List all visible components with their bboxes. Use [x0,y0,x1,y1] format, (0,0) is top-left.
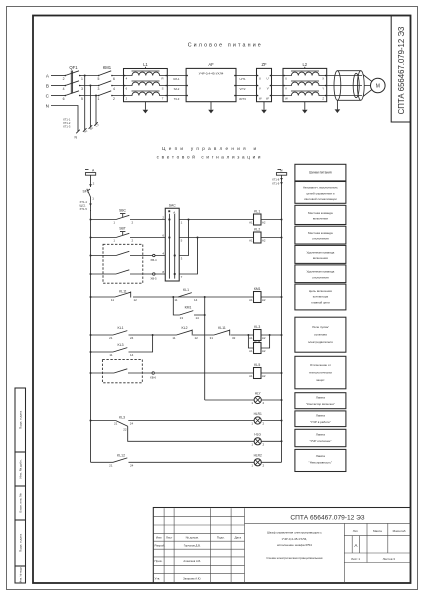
svg-text:Y: Y [322,86,324,90]
contact KL2 NC [172,326,198,340]
svg-text:14: 14 [130,353,134,357]
cable screen [334,71,364,101]
svg-text:А2: А2 [262,336,266,340]
svg-text:12: 12 [134,298,138,302]
technology protection box [102,359,142,382]
svg-text:Удаленная команда: Удаленная команда [307,250,335,254]
svg-text:KL11: KL11 [119,290,127,294]
contact KL3 changeover [114,415,134,431]
wire L2 to motor rows [326,76,362,96]
contact KL11 NC 31-32 [210,326,236,340]
svg-text:"Контактор включен": "Контактор включен" [306,402,335,406]
svg-text:ХТ1-1: ХТ1-1 [63,118,71,122]
svg-text:исполнение шкафа IP54: исполнение шкафа IP54 [277,543,312,547]
svg-text:Подп.: Подп. [217,536,225,540]
svg-text:А1: А1 [249,221,253,225]
relay coil KL1 [249,210,266,225]
svg-text:контактора: контактора [313,295,329,299]
ground cable screen [335,100,341,113]
contact KL1 seal [174,288,197,302]
svg-text:6: 6 [113,77,115,81]
breaker QF1 [63,65,83,101]
svg-text:Шкаф управления электроприводо: Шкаф управления электроприводом с [267,531,322,535]
svg-text:А1: А1 [249,349,253,353]
wire SAC 5 to KL2 [179,237,253,239]
svg-text:останова: останова [314,333,327,337]
svg-text:А1: А1 [249,298,253,302]
svg-text:QF1: QF1 [69,65,78,70]
svg-text:ХТ1-2: ХТ1-2 [63,121,71,125]
svg-text:цепей управления и: цепей управления и [306,191,334,195]
wire QF1 to KM1 row A [80,75,99,77]
node B [46,84,49,89]
svg-text:ХВ-6: ХВ-6 [150,375,157,379]
svg-text:Цепь включения: Цепь включения [309,289,332,293]
contact XB-5 [116,270,157,281]
wire rung 10 [91,420,282,422]
wire rung 11 [128,426,282,441]
svg-text:S/L2: S/L2 [174,87,180,91]
wire QF1 to KM1 row B [80,85,99,87]
node V/T2 [240,87,246,91]
contact XB-4 [116,251,157,261]
node branch left [172,296,174,298]
svg-text:V: V [259,86,261,90]
svg-text:5: 5 [98,77,100,81]
svg-text:М: М [376,84,380,90]
svg-text:Отключение от: Отключение от [310,363,332,367]
svg-text:А2: А2 [262,221,266,225]
ground AF [208,102,214,114]
svg-text:KL12: KL12 [117,453,125,457]
svg-text:12: 12 [195,336,199,340]
wire KL1 to N [261,219,282,221]
svg-text:KL3: KL3 [117,343,123,347]
node N tap [272,169,287,186]
wire phase C [51,95,65,97]
svg-text:А1: А1 [249,374,253,378]
wire rung 12 [91,461,282,463]
svg-text:N: N [46,104,49,109]
svg-text:Горчуков Д.В.: Горчуков Д.В. [184,543,201,547]
contactor KM1 [98,65,115,101]
svg-text:24: 24 [130,463,134,467]
motor M1 [371,78,386,93]
ground L1 [143,102,149,114]
contact KL12 [109,453,134,467]
pushbutton SBC [113,208,133,224]
selector switch SAC [162,203,182,281]
svg-text:Шинки питания: Шинки питания [309,171,332,175]
svg-text:А: А [173,210,175,214]
wire rung 6 [91,334,254,336]
svg-text:T/L3: T/L3 [174,97,180,101]
node U/T1 [239,77,246,81]
svg-text:11: 11 [174,298,177,302]
svg-text:КМ1: КМ1 [185,306,192,310]
svg-text:Местная команда: Местная команда [308,211,333,215]
svg-text:V/T2: V/T2 [240,87,246,91]
wire KL3 coil to N [261,334,282,336]
contact KL3 seal [109,343,133,357]
svg-text:световой сигнализации: световой сигнализации [157,153,263,159]
svg-text:X: X [322,76,324,80]
junction dots N bus [281,219,283,443]
svg-text:KL3: KL3 [254,325,260,329]
svg-text:Силовое питание: Силовое питание [188,43,263,49]
svg-text:электродвигателя: электродвигателя [308,340,333,344]
svg-text:Автоматич. выключатель: Автоматич. выключатель [303,186,338,190]
svg-text:Листов 3: Листов 3 [383,557,396,561]
svg-text:Лист 1: Лист 1 [351,557,360,561]
svg-text:5: 5 [81,97,83,101]
svg-text:Лист: Лист [166,536,173,540]
svg-text:ХТ1-5: ХТ1-5 [80,207,88,211]
svg-text:УЧР-0,4-45-УХЛ4: УЧР-0,4-45-УХЛ4 [199,71,224,75]
wire tag N [75,130,80,140]
wire left bus [90,210,92,462]
svg-text:R/L1: R/L1 [174,77,180,81]
node tap C [95,95,97,97]
wire SAC 3 link [179,220,188,256]
svg-text:24: 24 [130,336,134,340]
node tap A [84,75,86,77]
svg-text:U/T1: U/T1 [239,77,246,81]
svg-text:включения: включения [313,217,328,221]
svg-text:W': W' [266,96,270,100]
node A tap [85,169,96,187]
svg-text:11: 11 [109,353,112,357]
svg-text:Дата: Дата [234,536,241,540]
svg-text:Пров.: Пров. [155,559,163,563]
wire L1 to AF rows [166,76,187,96]
ground ZF [261,102,267,114]
svg-text:ХТ1-4: ХТ1-4 [80,200,88,204]
wire tag A1 [83,128,89,134]
node S/L2 [174,87,180,91]
svg-text:Лит.: Лит. [353,529,359,533]
relay coil KL3 [249,325,266,340]
svg-text:KL11: KL11 [218,326,226,330]
node W/T3 [239,97,246,101]
svg-text:А2: А2 [262,298,266,302]
svg-text:KL5: KL5 [254,363,260,367]
svg-text:21: 21 [109,336,113,340]
frequency converter AF [186,62,236,102]
wire phase A [51,75,65,77]
svg-text:21: 21 [109,463,113,467]
svg-text:SAC: SAC [169,203,177,207]
svg-text:3: 3 [81,87,83,91]
svg-text:14: 14 [194,298,198,302]
wire KM1 aux branch [173,297,204,315]
svg-text:KL2: KL2 [181,326,187,330]
wire ZF to L2 rows [270,76,284,96]
node N [46,104,49,109]
svg-text:T: T [162,97,164,101]
node seal junction [152,334,154,336]
svg-text:W: W [285,96,288,100]
svg-text:V: V [285,86,287,90]
svg-text:"Неисправность": "Неисправность" [309,461,332,465]
svg-text:Инв. № подл.: Инв. № подл. [19,566,23,582]
svg-text:Схема электрическая принципиал: Схема электрическая принципиальная [266,556,322,560]
svg-text:КМ1: КМ1 [254,287,261,291]
wire KM1 to L1 rows [112,76,125,96]
svg-text:главной цепи: главной цепи [311,300,330,304]
svg-text:Изм: Изм [156,536,162,540]
svg-text:№ докум.: № докум. [186,536,199,540]
lamp HLR1 [251,412,264,426]
svg-text:Удаленная команда: Удаленная команда [307,270,335,274]
svg-text:HLG: HLG [254,433,261,437]
svg-text:KL4: KL4 [254,340,260,344]
lamp HLY [251,391,264,405]
filter ZF [257,62,272,102]
svg-text:W/T3: W/T3 [239,97,246,101]
wire tag C1 [94,122,100,128]
node KL4 left [247,334,249,336]
remote command box [103,244,143,283]
svg-text:Алексеев А.Б.: Алексеев А.Б. [183,559,201,563]
svg-text:L2: L2 [302,62,307,67]
svg-text:Реле пуска/: Реле пуска/ [312,325,328,329]
contact KL1 start [109,326,134,340]
svg-text:Загарова А.Ю.: Загарова А.Ю. [183,577,201,581]
wire KL2 to N [261,237,282,239]
svg-text:А1: А1 [249,239,253,243]
svg-text:2: 2 [63,77,65,81]
terminal labels XT1 [63,118,71,129]
svg-text:отключения: отключения [312,237,329,241]
svg-text:отключения: отключения [312,275,329,279]
svg-text:ЩС1: ЩС1 [80,204,86,208]
svg-text:KL1: KL1 [254,210,260,214]
svg-text:УЧР-0,4-45-УХЛ4,: УЧР-0,4-45-УХЛ4, [282,537,308,541]
svg-text:световой сигнализации: световой сигнализации [304,197,337,201]
svg-text:А2: А2 [262,239,266,243]
wire rung 4 [91,273,166,275]
breaker SF1 [82,189,94,211]
node A [46,74,50,79]
svg-text:СПТА 656467.079-12 Э3: СПТА 656467.079-12 Э3 [397,27,406,115]
relay coil KM1 [249,287,266,302]
reactor L1 [124,62,168,102]
svg-text:SBC: SBC [119,208,127,212]
svg-text:Цепи управления и: Цепи управления и [162,146,259,151]
relay coil KL5 [249,363,266,378]
wire rung 3 [91,255,166,257]
relay coil KL2 [249,228,266,243]
svg-text:AF: AF [208,62,214,67]
wire rung 5 [91,296,254,298]
svg-text:А2: А2 [262,349,266,353]
svg-text:Лампа: Лампа [316,414,325,418]
wire KM1 coil to N [261,296,282,298]
contact XB-6 [114,369,157,380]
svg-text:6: 6 [63,97,65,101]
node T/L3 [174,97,180,101]
svg-text:Местная команда: Местная команда [308,231,333,235]
svg-text:11: 11 [172,336,175,340]
node branch right [204,296,206,298]
node lamp feed [204,314,206,316]
reactor L2 [283,62,327,102]
svg-text:защит: защит [316,378,325,382]
lamp HLG [251,433,264,447]
svg-text:U: U [259,76,261,80]
svg-text:1: 1 [81,77,83,81]
svg-text:U: U [285,76,287,80]
contact KM1 aux [180,306,200,320]
svg-text:СПТА 656467.079-12 Э3: СПТА 656467.079-12 Э3 [290,515,364,522]
svg-text:KL2: KL2 [254,228,260,232]
svg-text:1: 1 [98,97,100,101]
svg-text:R: R [161,77,163,81]
svg-text:ХВ-4: ХВ-4 [150,258,157,262]
svg-text:ZF: ZF [261,62,267,67]
wire N [51,106,78,132]
pushbutton SBT [113,226,133,242]
wire rung 1 [91,219,166,221]
svg-text:Масштаб: Масштаб [393,529,406,533]
svg-text:KL3: KL3 [119,415,125,419]
STAMP-TOP-RIGHT [391,16,410,123]
wire rung 2 [91,237,166,239]
svg-text:31: 31 [210,336,214,340]
svg-text:11: 11 [111,298,114,302]
svg-text:HLR2: HLR2 [254,454,262,458]
svg-text:В: В [46,84,49,89]
relay coil KL4 [249,340,266,354]
svg-text:4: 4 [63,87,65,91]
node SAC1-3 [188,219,190,221]
wire tag B1 [89,125,95,131]
svg-text:ХТ1-9: ХТ1-9 [272,181,280,185]
svg-text:HLY: HLY [255,391,262,395]
junction dots left bus [90,219,92,422]
svg-text:Лампа: Лампа [316,396,325,400]
wire rung 9 lamp [205,399,282,401]
svg-text:24: 24 [130,421,134,425]
svg-text:22: 22 [123,428,127,432]
svg-text:ХВ-5: ХВ-5 [150,276,157,280]
wire rung 7 [91,335,153,352]
svg-text:Подп. и дата: Подп. и дата [19,534,23,553]
wire tap A down [84,76,86,131]
svg-text:А1: А1 [249,336,253,340]
svg-text:Взам. инв. №: Взам. инв. № [19,493,23,513]
contact KL11 NC [111,290,137,302]
node C [46,94,50,99]
wire lamp feed down [204,315,206,400]
node tap B [89,85,91,87]
ground L2 [302,102,308,114]
svg-text:ХТ1-3: ХТ1-3 [63,125,71,129]
node KL4 right [269,334,271,336]
svg-text:2: 2 [113,97,115,101]
svg-text:21: 21 [114,421,118,425]
node SAC5-7 [197,237,199,239]
wire phase B [51,85,65,87]
svg-text:32: 32 [232,336,236,340]
svg-text:Подп. и дата: Подп. и дата [19,411,23,430]
svg-text:13: 13 [180,316,184,320]
wire SAC 7 link [179,238,197,275]
svg-text:KL1: KL1 [183,288,189,292]
svg-text:SBT: SBT [119,226,126,230]
wire tap C down [95,96,97,125]
svg-text:Разраб.: Разраб. [155,544,166,548]
svg-text:Инв. № дубл.: Инв. № дубл. [19,459,23,478]
svg-text:А2: А2 [262,374,266,378]
svg-text:Утв.: Утв. [155,577,161,581]
wire KL4 parallel [248,335,269,348]
svg-text:Лампа: Лампа [316,454,325,458]
svg-text:L1: L1 [143,62,148,67]
svg-text:включения: включения [313,256,328,260]
wire tap B down [89,86,91,128]
wire cable to motor [363,75,372,97]
wire KL5 coil to N [261,372,282,374]
svg-text:3: 3 [98,87,100,91]
svg-text:S: S [162,87,164,91]
svg-text:4: 4 [113,87,115,91]
wire rung 8 [91,372,254,374]
svg-text:технологических: технологических [309,371,333,375]
svg-text:"УЧР отключен": "УЧР отключен" [309,439,331,443]
svg-text:Лампа: Лампа [316,433,325,437]
svg-text:Масса: Масса [373,529,382,533]
lamp HLR2 [251,454,264,468]
svg-text:14: 14 [196,316,200,320]
wire AF to ZF rows [235,76,258,96]
node R/L1 [174,77,180,81]
svg-text:KL1: KL1 [117,326,123,330]
wire QF1 to KM1 row C [80,95,99,97]
svg-text:"УЧР в работе": "УЧР в работе" [310,420,331,424]
wire SAC 1 to KL1 [179,219,253,221]
wire N bus [281,175,283,462]
svg-text:HLR1: HLR1 [254,412,262,416]
svg-text:ХТ1-8: ХТ1-8 [272,178,280,182]
svg-text:КМ1: КМ1 [103,65,112,70]
terminal labels XT1 control [80,200,92,211]
